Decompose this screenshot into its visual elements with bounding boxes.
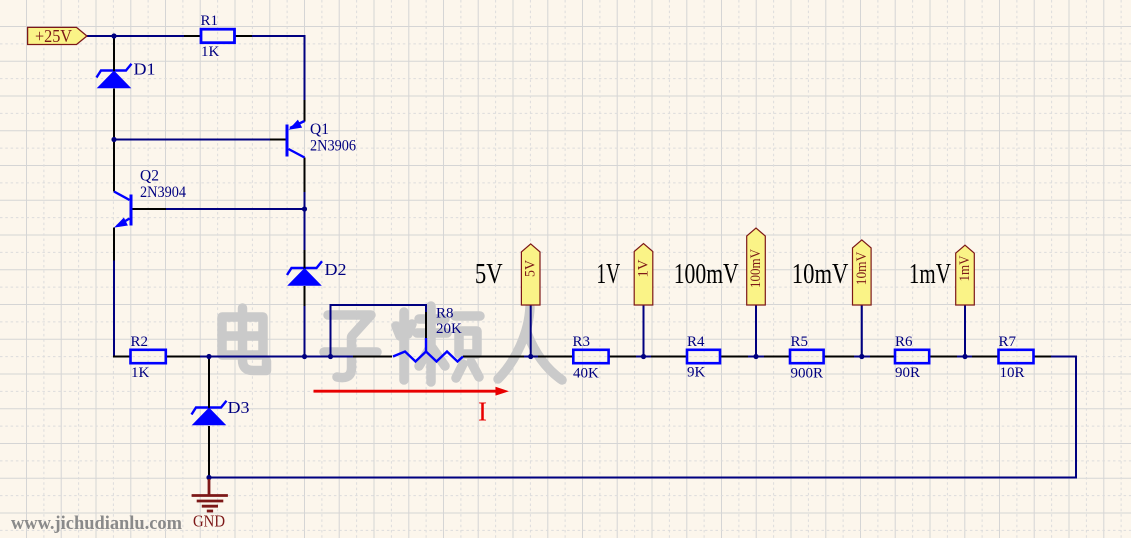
svg-text:R2: R2 xyxy=(131,334,149,350)
net label flag 1V xyxy=(634,244,653,306)
svg-text:40K: 40K xyxy=(573,366,599,382)
pin R2 right xyxy=(166,356,200,358)
svg-text:Q2: Q2 xyxy=(140,168,159,185)
wire 1V tag stem xyxy=(643,305,645,357)
pin R8 wiper xyxy=(425,312,427,338)
wire rail to right edge corner xyxy=(209,357,1076,478)
svg-text:R4: R4 xyxy=(687,334,705,350)
svg-text:1K: 1K xyxy=(131,365,150,381)
svg-text:100mV: 100mV xyxy=(748,249,764,288)
wire rail at 100mV node xyxy=(748,356,764,358)
svg-text:+25V: +25V xyxy=(35,26,72,46)
svg-text:2N3904: 2N3904 xyxy=(140,184,186,201)
zener diode D3 xyxy=(192,401,227,415)
pin R1 left xyxy=(184,35,201,37)
resistor R6 xyxy=(895,350,929,363)
svg-text:5V: 5V xyxy=(523,260,539,277)
svg-text:D1: D1 xyxy=(134,60,156,79)
wire node base Q1 xyxy=(114,139,270,141)
wire R1 to top-right corner and down to Q1 xyxy=(252,35,306,37)
svg-text:D2: D2 xyxy=(325,260,347,279)
pin Q1 base xyxy=(270,139,287,141)
ground symbol GND xyxy=(192,479,228,511)
svg-text:90R: 90R xyxy=(895,365,920,381)
svg-text:2N3906: 2N3906 xyxy=(310,138,356,155)
resistor R2 xyxy=(131,350,166,363)
transistor Q1 2N3906 xyxy=(287,120,305,158)
pin D3 bottom xyxy=(208,426,210,478)
wire 5V tag stem xyxy=(530,305,532,357)
svg-text:GND: GND xyxy=(193,512,225,531)
resistor R5 xyxy=(790,350,824,363)
svg-text:100mV: 100mV xyxy=(674,258,739,290)
svg-text:R1: R1 xyxy=(201,13,219,29)
pin R6 right xyxy=(929,356,957,358)
pin R5 left xyxy=(764,356,790,358)
svg-text:9K: 9K xyxy=(687,365,706,381)
svg-text:Q1: Q1 xyxy=(310,121,329,138)
pin Q1 emitter top xyxy=(304,100,306,122)
pin Q1 collector bottom xyxy=(304,158,306,193)
pin D2 bottom xyxy=(304,286,306,306)
svg-text:I: I xyxy=(478,397,487,427)
wire rail at 5V node xyxy=(524,356,538,358)
pin Q2 emitter bottom xyxy=(113,228,115,261)
R8 wiper arm xyxy=(425,338,427,352)
resistor R7 xyxy=(999,350,1034,363)
pin D2 top xyxy=(304,250,306,268)
wire R8 bypass loop xyxy=(331,305,427,357)
pin R4 left xyxy=(651,356,687,358)
zener diode D1 xyxy=(97,64,132,78)
wire rail at 10mV node xyxy=(854,356,870,358)
svg-text:R6: R6 xyxy=(895,334,913,350)
svg-text:10mV: 10mV xyxy=(792,258,849,290)
svg-text:1V: 1V xyxy=(636,259,652,278)
power port +25V xyxy=(28,27,87,44)
pin R7 left xyxy=(972,356,999,358)
pin D3 top xyxy=(208,357,210,408)
svg-text:1K: 1K xyxy=(201,44,220,60)
watermark chinese characters xyxy=(222,306,562,382)
pin D1 bottom xyxy=(113,89,115,141)
svg-text:1mV: 1mV xyxy=(957,255,973,281)
net label flag 5V xyxy=(521,244,540,305)
pin R8 left xyxy=(353,356,392,358)
wire 1mV tag stem xyxy=(964,305,966,357)
pin R1 right xyxy=(235,35,253,37)
wire top from +25V tag to R1 xyxy=(87,35,184,37)
net label flag 1mV xyxy=(956,245,975,305)
rheostat R8 zigzag xyxy=(393,352,463,362)
transistor Q2 2N3904 xyxy=(114,192,131,228)
pin R4 right xyxy=(721,356,748,358)
svg-text:www.jichudianlu.com: www.jichudianlu.com xyxy=(11,513,182,534)
resistor R4 xyxy=(687,350,720,363)
svg-text:R8: R8 xyxy=(436,306,454,322)
wire 10mV tag stem xyxy=(861,305,863,357)
wire left column down to rail xyxy=(113,261,115,356)
resistor R1 xyxy=(201,29,235,43)
svg-text:D3: D3 xyxy=(228,398,250,417)
net label flag 10mV xyxy=(853,240,872,305)
pin R6 left xyxy=(870,356,895,358)
net label flag 100mV xyxy=(747,228,766,305)
wire Q1 collector to node xyxy=(304,192,306,211)
svg-text:10mV: 10mV xyxy=(854,251,870,285)
pin R2 left xyxy=(113,356,131,358)
pin R8 right xyxy=(463,356,524,358)
pin R3 right xyxy=(609,356,636,358)
svg-text:5V: 5V xyxy=(475,258,503,290)
pin Q2 base xyxy=(131,208,166,210)
pin R3 left xyxy=(538,356,573,358)
wire D2 to rail xyxy=(304,306,306,357)
pin R5 right xyxy=(824,356,854,358)
wire rail at 1V node xyxy=(636,356,651,358)
zener diode D2 xyxy=(287,261,322,275)
wire Q2 base to node xyxy=(166,208,306,210)
svg-text:900R: 900R xyxy=(791,366,824,382)
svg-text:R5: R5 xyxy=(791,334,809,350)
svg-text:20K: 20K xyxy=(436,321,462,337)
wire 100mV tag stem xyxy=(755,305,757,357)
wire rail at 1mV node xyxy=(957,356,972,358)
svg-text:R3: R3 xyxy=(573,334,591,350)
current arrow I xyxy=(314,387,510,427)
wire rail R2 to R8 junction xyxy=(200,356,353,358)
wire node down to D2 xyxy=(304,209,306,250)
svg-text:1V: 1V xyxy=(596,258,620,290)
pin Q2 collector top xyxy=(113,140,115,192)
svg-text:R7: R7 xyxy=(999,334,1017,350)
svg-text:10R: 10R xyxy=(1000,365,1025,381)
svg-text:1mV: 1mV xyxy=(909,258,951,290)
resistor R3 xyxy=(573,350,608,363)
pin D1 top / wire xyxy=(113,35,115,71)
pin R7 right xyxy=(1034,356,1052,358)
